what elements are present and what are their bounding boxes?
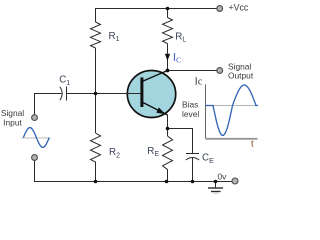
svg-text:level: level	[182, 109, 199, 119]
svg-text:Output: Output	[228, 70, 254, 80]
svg-text:Input: Input	[3, 117, 22, 127]
svg-text:Ic: Ic	[195, 77, 203, 88]
svg-text:Bias: Bias	[182, 99, 198, 109]
svg-text:t: t	[251, 139, 254, 150]
svg-text:+Vcc: +Vcc	[229, 2, 249, 12]
svg-text:0v: 0v	[218, 171, 228, 181]
